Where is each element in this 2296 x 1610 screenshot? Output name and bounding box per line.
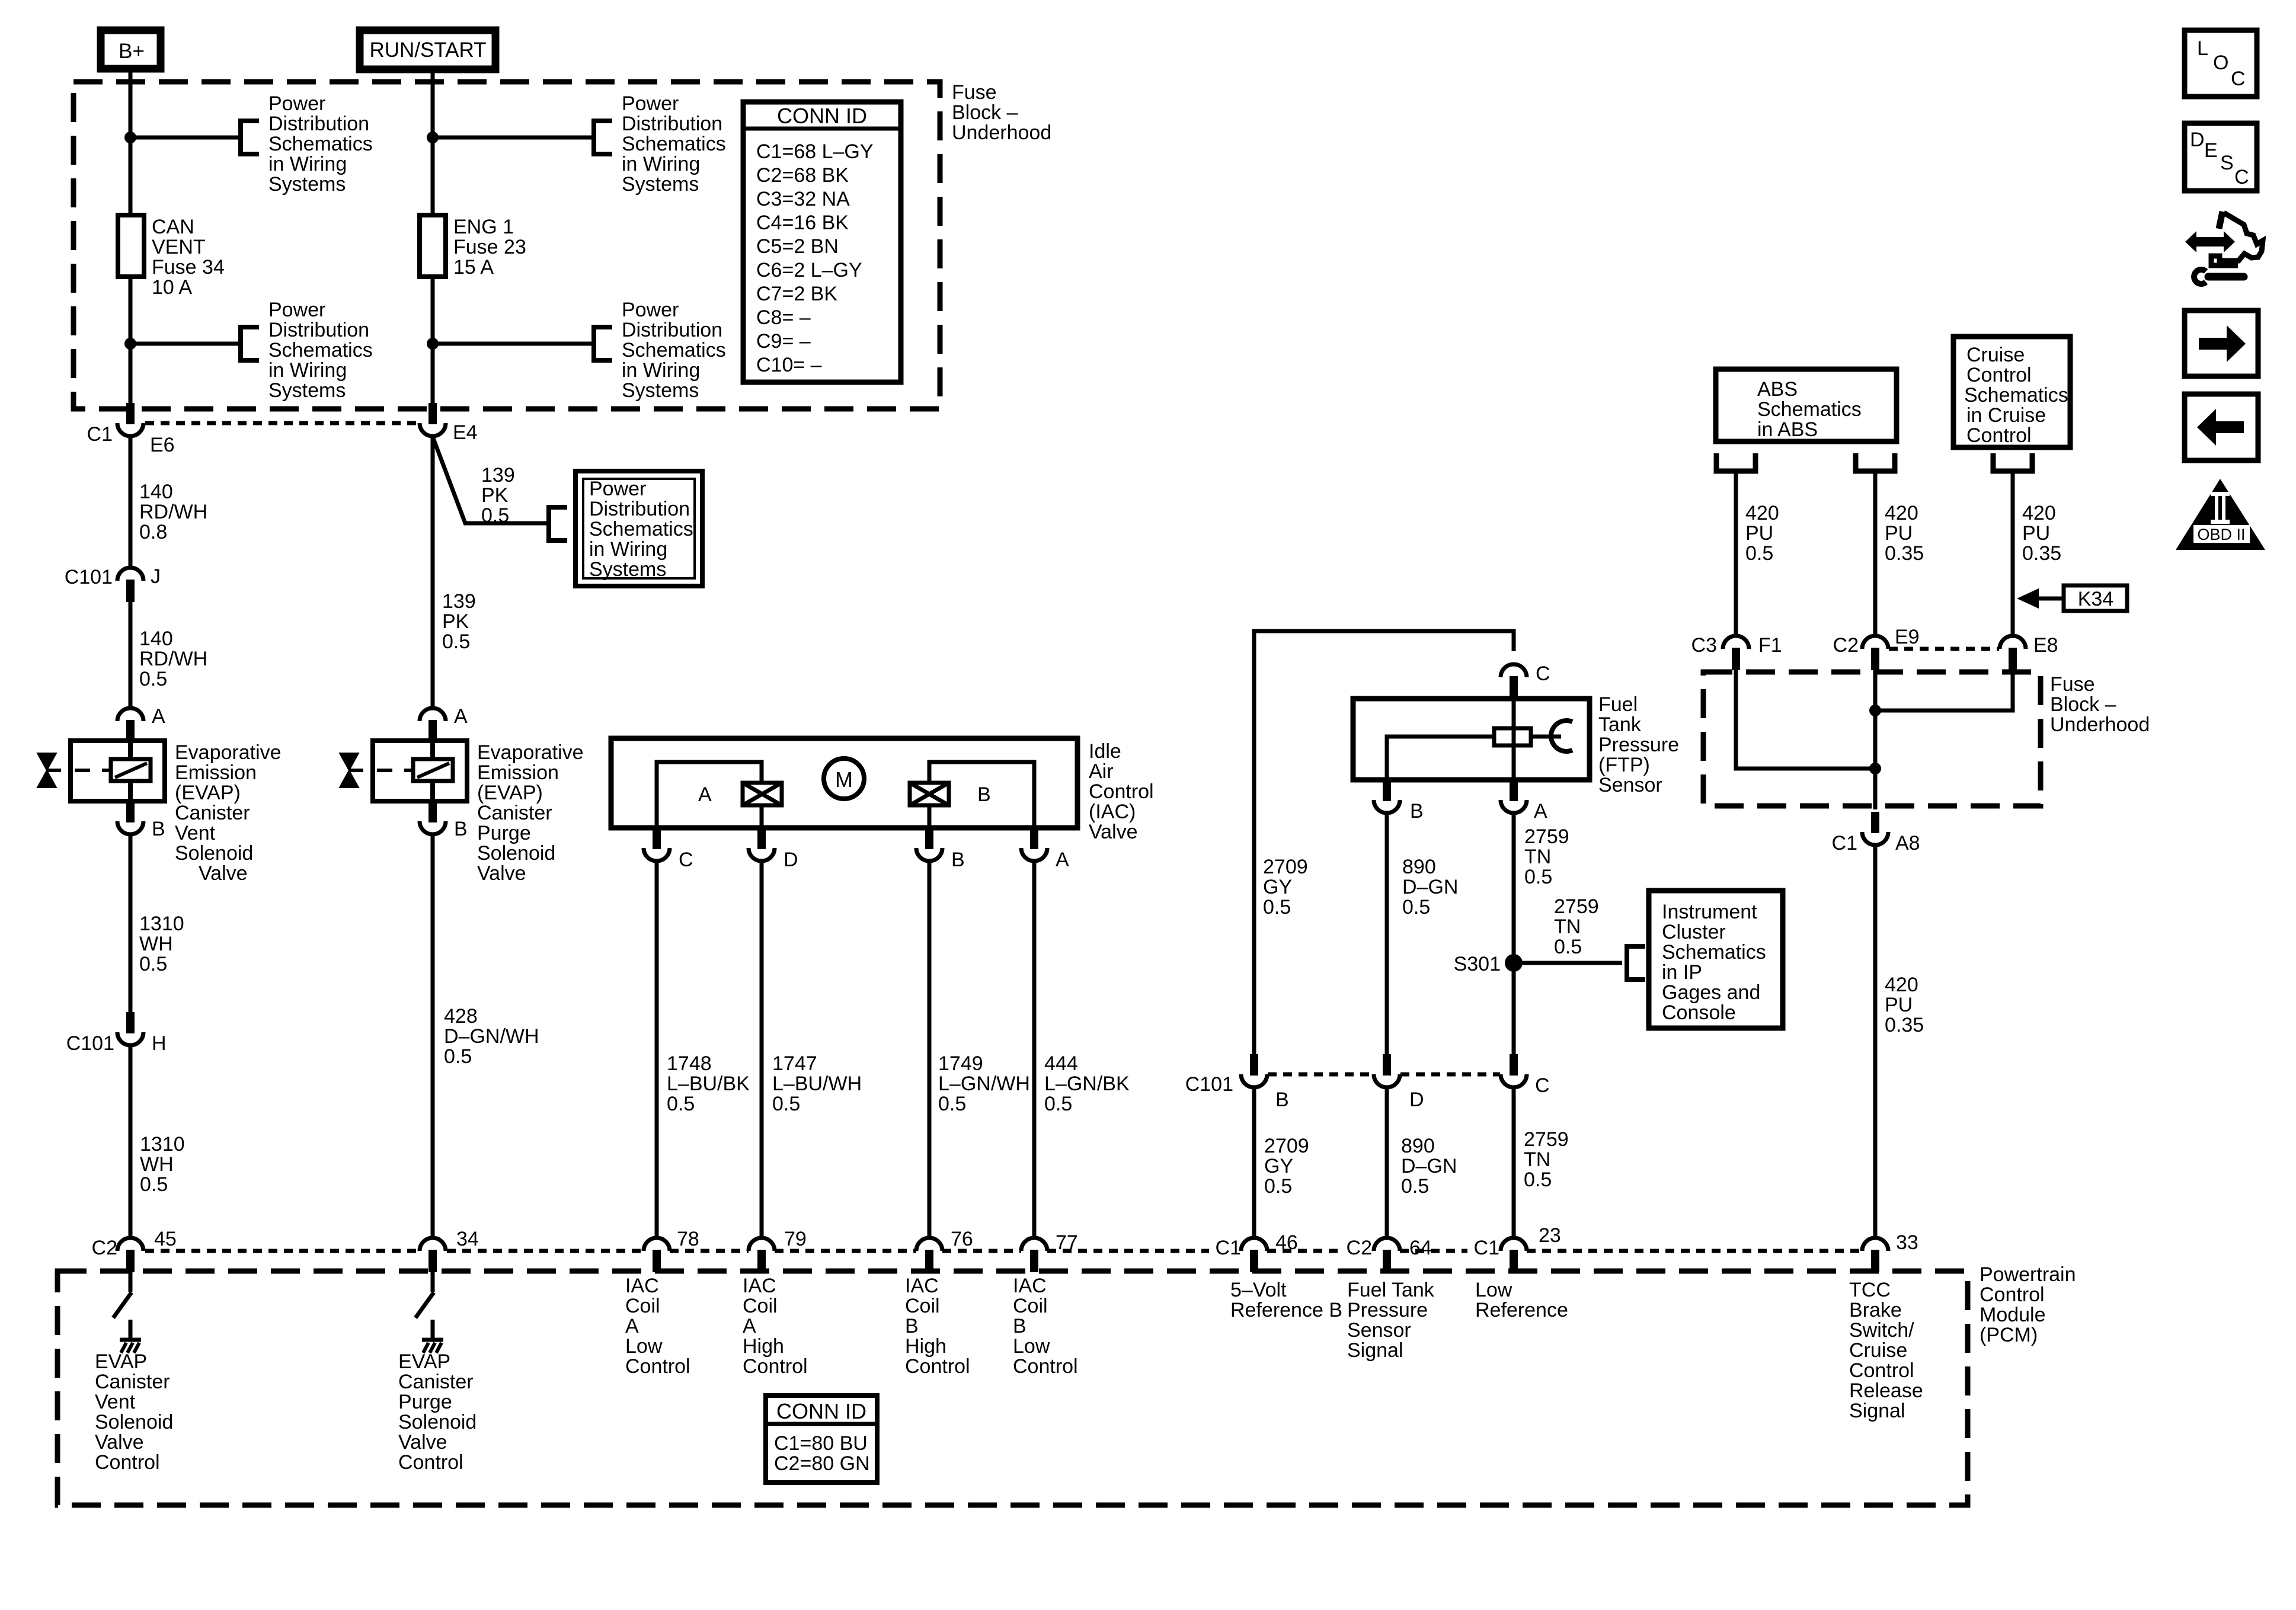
label TCC brake switch cruise control release signal — [1849, 1279, 1923, 1422]
label power distribution schematics 2 — [268, 299, 373, 402]
svg-text:WH: WH — [140, 1153, 174, 1176]
svg-text:Idle: Idle — [1089, 740, 1121, 763]
svg-text:Control: Control — [1089, 780, 1154, 803]
svg-text:C6=2 L–GY: C6=2 L–GY — [756, 259, 862, 281]
off-page bracket ABS left — [1716, 453, 1755, 471]
svg-text:E: E — [2204, 139, 2218, 162]
svg-text:VENT: VENT — [152, 236, 206, 258]
fuse ENG 1 Fuse 23 15A — [420, 215, 526, 279]
svg-text:IAC: IAC — [625, 1275, 659, 1297]
svg-text:Block –: Block – — [952, 101, 1018, 124]
dotted connector line C101 D-C — [1400, 1073, 1500, 1077]
svg-text:in IP: in IP — [1662, 961, 1702, 984]
wire 140 RD/WH 0.8 — [129, 436, 133, 568]
svg-text:420: 420 — [1885, 974, 1918, 996]
svg-text:RUN/START: RUN/START — [369, 39, 486, 62]
svg-text:Canister: Canister — [175, 802, 250, 824]
svg-text:0.5: 0.5 — [139, 953, 167, 975]
svg-text:Switch/: Switch/ — [1849, 1319, 1914, 1342]
svg-text:Schematics: Schematics — [268, 133, 373, 155]
svg-text:Brake: Brake — [1849, 1299, 1902, 1321]
connector pin 78 — [644, 1238, 670, 1272]
label 5-volt reference B — [1230, 1279, 1342, 1321]
svg-text:64: 64 — [1409, 1237, 1432, 1259]
svg-text:E9: E9 — [1895, 626, 1920, 648]
Fuse Block - Underhood label (top) — [952, 81, 1051, 144]
svg-text:IAC: IAC — [1013, 1275, 1047, 1297]
node junction B+ branch 1 — [124, 132, 136, 143]
svg-text:D: D — [2190, 129, 2205, 151]
ABS Schematics box — [1716, 369, 1897, 441]
node junction B+ branch 2 — [124, 338, 136, 350]
svg-text:Signal: Signal — [1347, 1339, 1403, 1362]
off-page bracket E4 branch — [549, 505, 567, 543]
FTP sensor box — [1353, 699, 1590, 780]
Fuse Block - Underhood label (right) — [2050, 673, 2150, 736]
label 2759 TN 0.5 below S301 — [1524, 1128, 1569, 1191]
svg-text:Block –: Block – — [2050, 693, 2116, 716]
svg-text:C: C — [679, 849, 693, 871]
svg-text:WH: WH — [139, 933, 173, 955]
svg-text:Power: Power — [268, 92, 325, 115]
connector C3 pin F1 — [1723, 636, 1749, 670]
svg-text:Purge: Purge — [398, 1391, 452, 1413]
wire 1310 WH 0.5 upper — [129, 834, 133, 1012]
svg-text:D–GN: D–GN — [1401, 1155, 1457, 1177]
svg-text:Control: Control — [743, 1355, 808, 1378]
svg-text:A: A — [625, 1315, 639, 1337]
svg-text:C: C — [1536, 662, 1550, 685]
connector EVAP purge pin B — [420, 801, 446, 834]
connector C1 pin E4 — [420, 403, 446, 436]
svg-text:0.5: 0.5 — [139, 668, 167, 690]
label power distribution schematics 1 — [268, 92, 373, 196]
label IAC coil A low control — [625, 1275, 690, 1378]
svg-text:L–GN/WH: L–GN/WH — [938, 1073, 1030, 1095]
wire 139 PK 0.5 vertical — [431, 437, 435, 708]
svg-text:Emission: Emission — [477, 761, 559, 784]
label EVAP canister vent solenoid valve control — [95, 1350, 173, 1474]
wire 428 D-GN/WH 0.5 — [431, 834, 435, 1238]
connector C2 pin 64 — [1374, 1238, 1400, 1272]
svg-text:TCC: TCC — [1849, 1279, 1891, 1301]
wire 1748 L-BU/BK 0.5 — [655, 861, 659, 1238]
svg-text:K34: K34 — [2078, 588, 2114, 610]
svg-text:Emission: Emission — [175, 761, 257, 784]
svg-text:140: 140 — [139, 481, 173, 503]
svg-text:Control: Control — [905, 1355, 970, 1378]
svg-text:B: B — [152, 818, 165, 840]
svg-text:0.5: 0.5 — [1044, 1093, 1072, 1115]
Instrument Cluster Schematics box — [1649, 891, 1783, 1028]
svg-text:Canister: Canister — [95, 1371, 170, 1393]
svg-text:Schematics: Schematics — [268, 339, 373, 361]
svg-text:in ABS: in ABS — [1757, 418, 1818, 441]
node junction C3/C2 — [1869, 763, 1881, 774]
Fuse Block - Underhood dashed box (right) — [1703, 672, 2041, 806]
svg-text:L–BU/WH: L–BU/WH — [772, 1073, 862, 1095]
wire 2709 GY 0.5 lower — [1252, 1087, 1256, 1238]
icon OBD II triangle — [2176, 479, 2265, 550]
svg-text:D: D — [1409, 1089, 1424, 1111]
svg-text:PK: PK — [481, 484, 509, 507]
svg-text:Vent: Vent — [95, 1391, 136, 1413]
ground EVAP vent driver — [120, 1340, 141, 1353]
wire 1310 WH 0.5 lower — [129, 1045, 133, 1238]
svg-text:E6: E6 — [150, 434, 175, 456]
svg-text:Systems: Systems — [622, 379, 699, 402]
svg-text:34: 34 — [456, 1228, 479, 1250]
svg-text:139: 139 — [442, 590, 476, 613]
wire 890 D-GN 0.5 lower — [1385, 1087, 1389, 1238]
svg-text:79: 79 — [784, 1228, 807, 1250]
svg-text:C1=68 L–GY: C1=68 L–GY — [756, 140, 874, 163]
svg-text:E8: E8 — [2033, 634, 2058, 657]
svg-text:C1: C1 — [1216, 1237, 1241, 1259]
svg-text:Canister: Canister — [398, 1371, 474, 1393]
svg-text:Sensor: Sensor — [1598, 774, 1662, 796]
wire 5-volt reference feed — [1254, 631, 1514, 1054]
svg-text:Low: Low — [625, 1335, 663, 1358]
svg-text:C101: C101 — [65, 566, 113, 588]
label EVAP vent solenoid — [175, 741, 282, 885]
svg-text:0.5: 0.5 — [1524, 1169, 1552, 1191]
off-page bracket ABS right — [1856, 453, 1895, 471]
svg-text:15 A: 15 A — [453, 256, 494, 279]
connector C1 pin A8 — [1862, 812, 1888, 845]
svg-text:ENG 1: ENG 1 — [453, 216, 514, 238]
svg-text:PU: PU — [1885, 522, 1913, 545]
svg-text:IAC: IAC — [905, 1275, 939, 1297]
svg-text:O: O — [2213, 52, 2228, 74]
label IAC coil B low control — [1013, 1275, 1078, 1378]
svg-text:Distribution: Distribution — [622, 319, 722, 341]
wire 420 PU 0.35 (E9) — [1873, 471, 1878, 636]
svg-text:S: S — [2220, 152, 2234, 174]
svg-text:Power: Power — [622, 92, 679, 115]
svg-text:0.5: 0.5 — [481, 504, 509, 527]
svg-text:0.35: 0.35 — [2022, 542, 2061, 565]
off-page bracket cruise — [1993, 453, 2032, 471]
svg-text:C101: C101 — [66, 1032, 114, 1055]
svg-text:C1: C1 — [1474, 1237, 1499, 1259]
svg-text:Coil: Coil — [743, 1295, 778, 1317]
svg-text:Control: Control — [1966, 364, 2032, 386]
svg-text:C101: C101 — [1185, 1073, 1233, 1096]
svg-text:0.5: 0.5 — [1745, 542, 1773, 565]
svg-text:0.5: 0.5 — [1402, 896, 1430, 918]
IAC coil B — [910, 783, 949, 805]
svg-text:in Wiring: in Wiring — [622, 359, 700, 382]
svg-text:B: B — [905, 1315, 919, 1337]
svg-text:Solenoid: Solenoid — [398, 1411, 477, 1433]
wire branch to power distribution 2 — [130, 342, 238, 346]
dotted connector line C1 — [145, 421, 418, 425]
svg-text:Schematics: Schematics — [1662, 941, 1766, 964]
svg-text:Evaporative: Evaporative — [477, 741, 584, 764]
svg-text:(IAC): (IAC) — [1089, 801, 1136, 823]
svg-text:Coil: Coil — [625, 1295, 660, 1317]
svg-text:139: 139 — [481, 464, 515, 486]
svg-text:76: 76 — [951, 1228, 973, 1250]
svg-text:428: 428 — [444, 1005, 478, 1028]
svg-text:Release: Release — [1849, 1379, 1923, 1402]
connector IAC pin D — [749, 828, 775, 861]
wire 140 RD/WH 0.5 — [129, 602, 133, 708]
svg-text:Reference: Reference — [1475, 1299, 1568, 1321]
label fuel tank pressure sensor signal — [1347, 1279, 1435, 1362]
svg-text:Schematics: Schematics — [589, 518, 693, 540]
svg-text:Fuel Tank: Fuel Tank — [1347, 1279, 1435, 1301]
svg-text:Fuse 34: Fuse 34 — [152, 256, 225, 279]
svg-text:Distribution: Distribution — [622, 113, 722, 135]
wire 2759 TN 0.5 upper — [1512, 813, 1516, 1054]
svg-text:EVAP: EVAP — [398, 1350, 450, 1373]
svg-text:Valve: Valve — [199, 862, 248, 885]
connector EVAP vent pin A — [117, 708, 143, 742]
svg-text:890: 890 — [1401, 1135, 1435, 1157]
svg-text:Coil: Coil — [1013, 1295, 1048, 1317]
svg-text:Fuse: Fuse — [2050, 673, 2095, 696]
label EVAP canister purge solenoid valve control — [398, 1350, 477, 1474]
svg-text:High: High — [743, 1335, 784, 1358]
svg-text:Pressure: Pressure — [1347, 1299, 1428, 1321]
svg-text:Module: Module — [1980, 1304, 2046, 1326]
svg-text:Solenoid: Solenoid — [175, 842, 253, 865]
connector FTP pin C — [1501, 664, 1527, 699]
label low reference — [1475, 1279, 1568, 1321]
svg-text:C3: C3 — [1691, 634, 1717, 657]
driver switch EVAP purge — [415, 1272, 434, 1338]
svg-text:GY: GY — [1264, 1155, 1293, 1177]
connector IAC pin C — [644, 828, 670, 861]
connector C1 pin E6 — [117, 403, 143, 436]
svg-text:L–GN/BK: L–GN/BK — [1044, 1073, 1130, 1095]
svg-text:C3=32 NA: C3=32 NA — [756, 188, 850, 210]
svg-text:High: High — [905, 1335, 946, 1358]
connector EVAP purge pin A — [420, 708, 446, 742]
connector IAC pin A — [1021, 828, 1047, 861]
svg-text:Underhood: Underhood — [2050, 713, 2150, 736]
wire S301 branch to instrument cluster — [1514, 961, 1622, 965]
svg-text:Air: Air — [1089, 760, 1114, 783]
svg-text:2709: 2709 — [1263, 856, 1308, 878]
svg-text:0.5: 0.5 — [667, 1093, 695, 1115]
fuse CAN VENT Fuse 34 10A — [118, 215, 225, 299]
svg-text:2759: 2759 — [1554, 895, 1599, 918]
off-page bracket 1 — [241, 119, 259, 156]
svg-text:CONN ID: CONN ID — [777, 104, 867, 128]
svg-text:C2=80 GN: C2=80 GN — [774, 1452, 870, 1475]
svg-text:Instrument: Instrument — [1662, 901, 1757, 923]
label IAC coil B high control — [905, 1275, 970, 1378]
svg-text:1747: 1747 — [772, 1052, 817, 1075]
svg-text:0.35: 0.35 — [1885, 1014, 1924, 1036]
svg-text:Power: Power — [622, 299, 679, 321]
wire branch to power distribution 4 — [433, 342, 591, 346]
svg-text:Purge: Purge — [477, 822, 531, 844]
svg-text:Systems: Systems — [268, 379, 346, 402]
svg-text:(EVAP): (EVAP) — [175, 782, 241, 804]
svg-text:RD/WH: RD/WH — [139, 501, 207, 523]
svg-text:Control: Control — [1980, 1283, 2045, 1306]
svg-text:B: B — [1275, 1089, 1289, 1111]
svg-text:1749: 1749 — [938, 1052, 983, 1075]
svg-text:C4=16 BK: C4=16 BK — [756, 212, 849, 234]
RUN/START terminal box — [360, 30, 495, 69]
svg-text:C2=68 BK: C2=68 BK — [756, 164, 849, 187]
svg-text:C5=2 BN: C5=2 BN — [756, 235, 839, 258]
svg-text:Valve: Valve — [1089, 821, 1138, 843]
wire branch to power distribution 1 — [130, 136, 238, 140]
svg-text:C10= –: C10= – — [756, 354, 822, 376]
svg-text:C9= –: C9= – — [756, 330, 811, 353]
svg-text:77: 77 — [1056, 1231, 1078, 1254]
icon DESC box — [2185, 123, 2257, 191]
wire 1749 L-GN/WH 0.5 — [928, 861, 932, 1238]
svg-text:420: 420 — [2022, 502, 2056, 524]
svg-text:5–Volt: 5–Volt — [1230, 1279, 1287, 1301]
wire 420 PU 0.5 — [1734, 471, 1738, 636]
off-page bracket 4 — [594, 325, 612, 363]
svg-text:(PCM): (PCM) — [1980, 1324, 2038, 1346]
svg-text:C: C — [2234, 166, 2249, 188]
svg-text:Gages and: Gages and — [1662, 981, 1760, 1004]
PCM dashed box — [57, 1271, 1968, 1505]
B+ terminal box — [101, 30, 161, 69]
svg-text:Cruise: Cruise — [1966, 344, 2025, 366]
EVAP canister vent solenoid valve — [71, 741, 165, 801]
svg-text:Power: Power — [589, 478, 646, 500]
wire fuse block internal C2 — [1873, 670, 1878, 809]
svg-text:Distribution: Distribution — [268, 113, 369, 135]
icon LOC box — [2185, 30, 2257, 97]
svg-text:J: J — [151, 565, 161, 588]
svg-text:in Wiring: in Wiring — [268, 153, 347, 175]
svg-text:2709: 2709 — [1264, 1135, 1309, 1157]
splice S301 — [1505, 954, 1523, 972]
svg-text:OBD II: OBD II — [2197, 526, 2245, 543]
svg-text:PK: PK — [442, 610, 469, 633]
svg-text:0.8: 0.8 — [139, 521, 167, 543]
svg-text:GY: GY — [1263, 876, 1292, 898]
svg-text:Systems: Systems — [268, 173, 346, 196]
svg-text:C1=80 BU: C1=80 BU — [774, 1432, 868, 1455]
IAC valve box — [611, 738, 1077, 828]
EVAP canister purge solenoid valve — [373, 741, 467, 801]
icon vehicle repair (car with arrow and wrench) — [2185, 212, 2263, 284]
svg-text:Signal: Signal — [1849, 1400, 1905, 1422]
svg-text:C2: C2 — [92, 1237, 117, 1259]
svg-text:Canister: Canister — [477, 802, 552, 824]
IAC coil A — [743, 783, 782, 805]
valve symbol (purge) — [340, 753, 363, 788]
svg-text:A: A — [152, 705, 165, 728]
label power distribution schematics 4 — [622, 299, 726, 402]
svg-text:C2: C2 — [1347, 1237, 1372, 1259]
wire 890 D-GN 0.5 upper — [1385, 813, 1389, 1054]
svg-text:C: C — [2231, 68, 2246, 90]
connector C101 pin H — [117, 1012, 143, 1045]
svg-text:D–GN/WH: D–GN/WH — [444, 1025, 539, 1048]
svg-text:Schematics: Schematics — [1757, 398, 1862, 421]
off-page bracket 3 — [594, 119, 612, 156]
svg-text:TN: TN — [1554, 916, 1581, 938]
svg-text:A: A — [1534, 800, 1547, 822]
svg-text:B: B — [951, 849, 965, 871]
wire fuse block internal C3 — [1736, 670, 1875, 769]
connector C101 pin B — [1241, 1054, 1267, 1087]
wire B+ vertical — [129, 72, 133, 403]
svg-text:in Wiring: in Wiring — [622, 153, 700, 175]
svg-text:Distribution: Distribution — [589, 498, 690, 520]
svg-text:PU: PU — [1885, 994, 1913, 1016]
connector C101 pin D — [1374, 1054, 1400, 1087]
Fuse Block - Underhood dashed box (top) — [73, 82, 940, 409]
svg-text:F1: F1 — [1758, 634, 1782, 657]
svg-text:0.5: 0.5 — [444, 1045, 472, 1068]
svg-text:Distribution: Distribution — [268, 319, 369, 341]
svg-text:Schematics: Schematics — [622, 339, 726, 361]
svg-text:1310: 1310 — [139, 913, 184, 935]
wire branch to power distribution 3 — [433, 136, 591, 140]
connector pin 33 — [1862, 1238, 1888, 1272]
svg-text:Fuse: Fuse — [952, 81, 997, 104]
svg-text:Evaporative: Evaporative — [175, 741, 282, 764]
svg-text:Control: Control — [1966, 424, 2032, 447]
svg-text:B: B — [1410, 800, 1424, 822]
wire 420 PU 0.35 (A8 to 33) — [1873, 845, 1878, 1238]
connector EVAP vent pin B — [117, 801, 143, 834]
svg-text:10 A: 10 A — [152, 276, 192, 299]
svg-text:Powertrain: Powertrain — [1980, 1263, 2076, 1286]
svg-text:2759: 2759 — [1524, 825, 1569, 848]
svg-text:46: 46 — [1275, 1231, 1298, 1254]
svg-text:1310: 1310 — [140, 1133, 185, 1156]
svg-text:C7=2 BK: C7=2 BK — [756, 283, 837, 305]
svg-text:Valve: Valve — [398, 1431, 447, 1454]
svg-text:0.5: 0.5 — [772, 1093, 800, 1115]
ground EVAP purge driver — [422, 1340, 443, 1353]
svg-text:E4: E4 — [453, 421, 478, 444]
node junction RUN branch 2 — [427, 338, 439, 350]
svg-text:Low: Low — [1013, 1335, 1050, 1358]
svg-text:B: B — [1013, 1315, 1027, 1337]
connector FTP pin B — [1374, 780, 1400, 813]
svg-text:Low: Low — [1475, 1279, 1512, 1301]
CONN ID table (top) — [743, 102, 901, 382]
svg-text:Coil: Coil — [905, 1295, 940, 1317]
svg-text:D: D — [784, 849, 798, 871]
connector C101 pin J — [117, 568, 143, 602]
driver switch EVAP vent — [113, 1272, 132, 1338]
svg-text:TN: TN — [1524, 846, 1551, 868]
svg-text:Control: Control — [1013, 1355, 1078, 1378]
svg-text:CONN ID: CONN ID — [776, 1399, 866, 1423]
svg-text:45: 45 — [154, 1228, 177, 1250]
connector C101 pin C — [1501, 1054, 1527, 1087]
svg-text:140: 140 — [139, 628, 173, 650]
connector C1 pin 46 — [1241, 1238, 1267, 1272]
connector pin 77 — [1021, 1238, 1047, 1272]
svg-text:C1: C1 — [87, 423, 113, 446]
label EVAP purge solenoid — [477, 741, 584, 885]
svg-text:H: H — [152, 1032, 167, 1055]
svg-text:Valve: Valve — [477, 862, 526, 885]
svg-text:A: A — [1056, 849, 1069, 871]
node junction E8/C2 — [1869, 705, 1881, 716]
dotted connector line PCM row — [145, 1249, 1862, 1253]
